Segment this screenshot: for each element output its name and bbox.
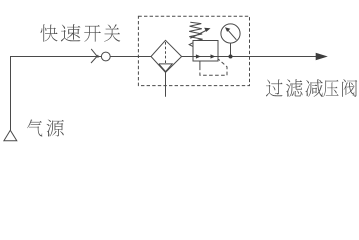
pressure gauge: dial circle <box>221 24 240 43</box>
air source symbol (triangle) <box>4 130 17 141</box>
pressure gauge: needle <box>228 30 236 39</box>
wire: coupling to filter <box>110 56 151 58</box>
regulator adjustment arrow <box>190 31 206 39</box>
pneumatic schematic: air source -> quick coupling -> filter/regulator unit <box>0 0 359 147</box>
dashed enclosure box (FRL unit) <box>138 16 249 85</box>
regulator relief arrowhead at left edge <box>189 43 193 47</box>
output flow arrowhead <box>316 53 328 61</box>
text label "气源 air source" <box>27 119 42 136</box>
wire: line through regulator to output arrow <box>193 56 317 58</box>
regulator flow arrowheads <box>196 54 201 58</box>
filter water-trap (inverted triangle) <box>159 64 172 72</box>
wire: filter to regulator <box>182 56 193 58</box>
filter F: diamond body <box>151 40 182 72</box>
filter element (dashed centerline) <box>165 42 167 63</box>
wire: main supply line from air source corner to coupling <box>11 57 102 131</box>
text label "过滤减压阀 filter pressure-reducing valve" <box>266 79 283 96</box>
regulator spring (zigzag) <box>189 22 202 40</box>
quick coupling circle <box>101 52 110 61</box>
pressure gauge: stem <box>230 43 232 57</box>
text label "快速开关 quick switch" <box>40 24 57 41</box>
wire: filter drain <box>165 72 167 96</box>
regulator pilot sensing line (dashed loop) <box>200 59 227 75</box>
regulator R: body box <box>193 41 218 62</box>
junction node on main line <box>229 55 233 59</box>
quick coupling check-cone (V, crossed lines) <box>91 49 98 58</box>
regulator pilot sensing line (solid stub) <box>199 61 201 67</box>
